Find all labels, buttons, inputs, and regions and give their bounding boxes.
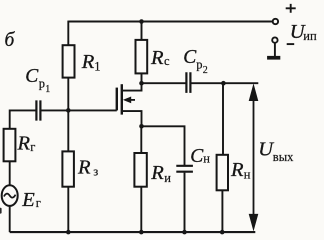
wire Ri top xyxy=(140,126,142,153)
svg-text:н: н xyxy=(244,168,251,182)
ground symbol lead xyxy=(274,43,276,56)
source Eg sine symbol xyxy=(4,194,16,198)
wire Rn top xyxy=(222,83,224,155)
svg-text:и: и xyxy=(164,171,171,185)
wire Ri bottom xyxy=(140,187,142,232)
wire Rc top xyxy=(141,22,143,40)
svg-text:R: R xyxy=(77,157,91,179)
svg-text:з: з xyxy=(93,165,98,179)
scan smudge left edge xyxy=(0,208,2,214)
node gate junction dot xyxy=(66,108,71,113)
wire Eg bottom xyxy=(9,206,11,232)
svg-text:г: г xyxy=(36,196,41,210)
transistor VT channel line xyxy=(121,84,123,114)
wire gate line from Cp1 to gate bar xyxy=(40,109,116,111)
transistor VT drain lead xyxy=(122,83,142,90)
resistor Rn xyxy=(217,155,228,191)
node junction dot on top rail at Rc branch xyxy=(139,19,144,24)
svg-text:н: н xyxy=(203,152,210,166)
wire Rn bottom xyxy=(221,190,223,232)
wire bottom ground rail xyxy=(10,231,256,233)
source Eg circle xyxy=(2,185,18,206)
svg-text:C: C xyxy=(25,66,39,87)
svg-text:C: C xyxy=(190,146,204,167)
node output junction dot xyxy=(221,81,226,86)
label minus sign xyxy=(287,43,295,45)
wire R3 bottom xyxy=(67,187,69,232)
transistor VT gate bar xyxy=(116,88,118,111)
svg-text:R: R xyxy=(150,47,164,69)
resistor R1 xyxy=(63,45,75,77)
voltage arrow Uvyh line xyxy=(253,99,255,216)
svg-text:1: 1 xyxy=(45,84,50,95)
resistor Rc xyxy=(136,40,148,74)
wire R1 bottom to gate node xyxy=(67,78,69,111)
wire from rail corner down to R1 xyxy=(67,21,69,46)
terminal minus circle xyxy=(272,37,277,42)
wire Cn branch horizontal and down xyxy=(142,126,185,165)
svg-text:R: R xyxy=(81,51,95,73)
capacitor Cp1 plates xyxy=(36,100,40,120)
wire Cp2 to output xyxy=(190,82,258,84)
svg-text:вых: вых xyxy=(273,150,294,164)
transistor VT substrate arrow xyxy=(129,99,135,101)
resistor R3 xyxy=(62,151,74,186)
node bottom dot R3 xyxy=(66,230,71,235)
wire Rc bottom to drain node xyxy=(141,73,143,83)
svg-text:R: R xyxy=(230,159,244,181)
svg-text:R: R xyxy=(17,133,31,155)
svg-text:E: E xyxy=(21,189,35,211)
svg-text:1: 1 xyxy=(94,60,100,74)
resistor Rg xyxy=(4,129,16,162)
node bottom dot Ri xyxy=(139,230,144,235)
wire top supply rail xyxy=(68,21,272,23)
voltage arrow Uvyh head up xyxy=(249,83,259,101)
svg-text:C: C xyxy=(183,47,197,68)
wire Cn bottom xyxy=(184,173,186,233)
svg-text:р: р xyxy=(39,77,45,91)
transistor VT source lead xyxy=(122,111,142,126)
svg-text:р: р xyxy=(196,58,202,72)
wire input from corner to Cp1 left plate xyxy=(10,109,37,111)
wire R3 top xyxy=(67,110,69,151)
wire Rg to Eg xyxy=(9,161,11,185)
svg-text:с: с xyxy=(164,54,170,68)
node source junction dot xyxy=(139,124,144,129)
svg-text:г: г xyxy=(30,140,35,154)
capacitor Cp2 plates xyxy=(186,72,190,93)
terminal plus circle xyxy=(273,19,278,24)
svg-text:2: 2 xyxy=(203,65,208,76)
label plus sign xyxy=(286,4,296,13)
node bottom dot Rn xyxy=(220,230,225,235)
wire input corner down to Rg xyxy=(9,110,11,129)
node drain junction dot xyxy=(139,81,144,86)
svg-text:R: R xyxy=(150,162,164,184)
capacitor Cn plates xyxy=(176,166,193,172)
node bottom dot Cn xyxy=(182,230,187,235)
wire drain node to Cp2 xyxy=(142,82,187,84)
svg-text:б: б xyxy=(5,30,16,51)
voltage arrow Uvyh head down xyxy=(249,214,259,232)
svg-text:ип: ип xyxy=(303,29,317,43)
resistor Ri xyxy=(134,153,146,187)
ground symbol bar xyxy=(267,56,280,60)
